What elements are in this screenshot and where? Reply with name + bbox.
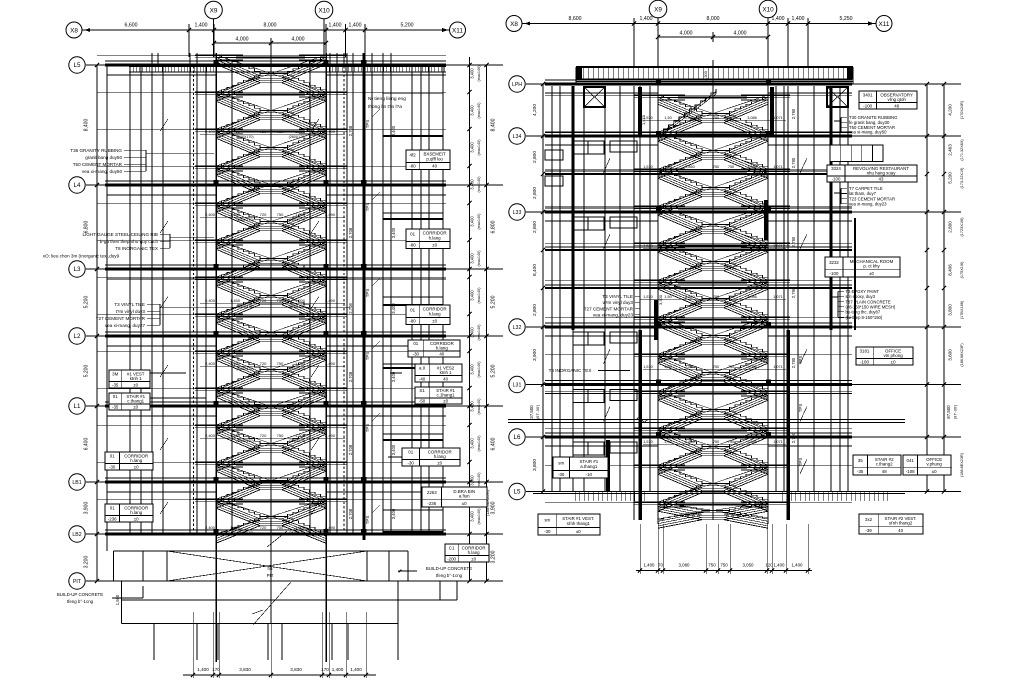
inside side landings [216,424,243,426]
inside side landings [216,128,243,130]
centre landing slab [236,242,305,244]
centre landing slab [236,94,305,96]
heavy wall step below L33 [854,218,856,330]
svg-text:5,200: 5,200 [948,172,953,184]
svg-text:TPS: TPS [365,203,370,212]
svg-text:X9: X9 [654,6,662,13]
stair landing stubs [195,276,216,278]
svg-text:1,400: 1,400 [197,667,209,672]
svg-text:±0: ±0 [576,529,581,534]
svg-text:-100: -100 [860,360,869,365]
svg-text:vea xi-mang, duy50: vea xi-mang, duy50 [82,169,123,174]
svg-text:(max140): (max140) [477,139,481,156]
svg-text:720: 720 [260,212,267,217]
svg-text:4,200: 4,200 [948,104,953,116]
svg-text:1,450: 1,450 [230,361,241,366]
centre landing slab [236,464,305,466]
stair flight down [216,388,260,407]
svg-text:2,708: 2,708 [348,227,353,238]
pit leaders [253,582,291,625]
level bubble L4 [69,177,85,193]
pit right wall [388,551,390,581]
stair flight down [216,55,260,74]
stair landing stubs [634,501,658,503]
level bubble LB2 [69,526,85,542]
stair landing stubs [634,316,658,318]
svg-text:L2: L2 [74,333,81,340]
ground tick band at L5 right [574,492,576,502]
svg-text:4,000: 4,000 [236,37,249,43]
level line L33 (right section) [526,211,961,213]
inside side landings [216,498,243,500]
stair landing stubs [195,54,216,56]
svg-text:granit bang duy50: granit bang duy50 [85,155,122,160]
svg-text:1,400: 1,400 [792,16,805,22]
svg-text:T27 CEMENT MORTAR: T27 CEMENT MORTAR [96,316,146,321]
stair flight up [658,188,702,207]
level line L34 (right section) [526,135,961,137]
svg-text:3232: 3232 [829,260,839,265]
centre landing slab [236,501,305,503]
svg-text:35: 35 [858,458,863,463]
svg-text:(max140): (max140) [477,361,481,378]
svg-text:4,000: 4,000 [734,31,747,37]
stair landing stubs [634,427,658,429]
level line L2 (left section) [86,335,503,337]
svg-text:a.thang1: a.thang1 [580,464,598,469]
svg-text:750: 750 [713,165,719,169]
svg-text:v.phung: v.phung [927,462,943,467]
shelf line right bay [383,304,443,306]
svg-text:1,071: 1,071 [773,165,783,169]
stair landing stubs [634,242,658,244]
stair flight down [216,351,260,370]
svg-text:±0: ±0 [134,465,139,470]
level bubble L1 [69,398,85,414]
svg-text:-80: -80 [409,319,416,324]
level line L6 (right section) [526,436,961,438]
stair flight down [658,428,702,447]
window sill right bay [383,363,443,365]
pit left wall [113,551,115,581]
svg-text:(max140): (max140) [477,102,481,119]
svg-text:750: 750 [277,298,284,303]
inside side landings [216,387,243,389]
svg-text:750: 750 [728,295,734,299]
door swing marks [160,365,168,377]
svg-text:±0: ±0 [437,461,442,466]
dashed shaft line [193,66,195,534]
svg-text:87,500: 87,500 [946,405,951,419]
svg-text:8,000: 8,000 [264,23,277,29]
stair landing stubs [634,390,658,392]
svg-text:2,860: 2,860 [685,165,695,169]
svg-text:TPS: TPS [798,458,803,467]
svg-text:T50 CEMENT MORTAR: T50 CEMENT MORTAR [73,162,123,167]
svg-text:750: 750 [728,165,734,169]
centre landing slab [236,427,305,429]
inside side landings [216,165,243,167]
small window stack left edge right section [545,150,563,160]
svg-text:-200: -200 [447,557,456,562]
svg-text:3,830: 3,830 [290,667,302,672]
ceiling lines per storey (left bays) [107,74,216,76]
svg-text:-35: -35 [112,383,119,388]
core walls to foundation [215,581,217,662]
svg-text:-30: -30 [413,352,420,357]
stair landing stubs [195,424,216,426]
svg-text:(max140): (max140) [477,435,481,452]
svg-text:3,400: 3,400 [470,253,475,264]
svg-text:L5: L5 [74,62,81,69]
svg-text:2,860: 2,860 [685,365,695,369]
svg-text:2,490: 2,490 [325,525,336,530]
svg-text:01: 01 [110,506,115,511]
stair landing stubs [195,128,216,130]
svg-text:750: 750 [728,244,734,248]
level bubble L5 [509,483,525,499]
right bay walls [329,66,331,534]
svg-text:2,800: 2,800 [532,221,538,233]
svg-text:2,800: 2,800 [532,304,538,316]
svg-text:1,400: 1,400 [792,563,804,568]
svg-text:1,570: 1,570 [643,165,653,169]
window boxes left bay [573,141,604,154]
svg-text:h.lang: h.lang [130,510,143,515]
stair flight down [216,129,260,148]
door swing marks [160,119,168,131]
svg-text:LB2: LB2 [72,532,81,538]
svg-text:vŕng qtoh: vŕng qtoh [888,97,907,102]
window boxes left bay [573,442,604,455]
svg-text:1,200: 1,200 [295,212,306,217]
svg-text:sm: sm [544,518,550,523]
stair flight up [658,151,702,170]
svg-text:3,400: 3,400 [391,303,396,314]
svg-text:4,000: 4,000 [680,31,693,37]
inside side landings [658,390,685,392]
stair flight down [658,317,702,336]
window band right bay L34 storey [830,145,883,162]
svg-text:1,570: 1,570 [643,295,653,299]
svg-text:1,200: 1,200 [295,433,306,438]
centre landing slab [678,171,747,173]
svg-text:±0: ±0 [471,557,476,562]
level line LB1 (left section) [86,481,503,483]
stair flight up [216,259,260,278]
inside side landings [658,501,685,503]
svg-text:2,790: 2,790 [791,236,796,247]
svg-text:(max140): (max140) [477,213,481,230]
centre landing slab [678,430,747,432]
level bubble L6 [509,429,525,445]
svg-text:8,000: 8,000 [707,16,720,22]
svg-text:2,400: 2,400 [205,212,216,217]
svg-text:2,708: 2,708 [348,444,353,455]
svg-text:c.1hang1: c.1hang1 [437,393,456,398]
svg-text:X8: X8 [70,27,78,34]
leader lines from boxes [150,372,186,374]
level line PIT (left section) [86,580,503,582]
svg-text:3,830: 3,830 [239,667,251,672]
svg-text:1,400: 1,400 [349,23,362,29]
svg-text:TPS: TPS [798,356,803,365]
stair flight up [216,74,260,93]
right section label boxes [859,91,917,109]
grid bubble X10 right [759,0,777,18]
svg-text:3,200: 3,200 [491,550,497,563]
svg-text:1,50: 1,50 [664,365,671,369]
pit slab [121,581,123,624]
grid bubble X8 [66,22,82,38]
svg-text:5,250: 5,250 [840,16,853,22]
svg-text:01: 01 [413,341,418,346]
svg-text:vtn phong: vtn phong [883,353,903,358]
svg-text:(max140): (max140) [477,398,481,415]
svg-text:750: 750 [277,361,284,366]
svg-text:TPS: TPS [365,352,370,361]
svg-text:h.lang: h.lang [429,311,442,316]
svg-text:1,50: 1,50 [664,440,671,444]
svg-text:(max140): (max140) [477,324,481,341]
stair flight down [216,240,260,259]
svg-text:8,400: 8,400 [491,118,497,131]
svg-text:2,490: 2,490 [325,212,336,217]
svg-text:X8: X8 [510,21,518,28]
extension lines right bottom dims [639,524,641,574]
svg-text:±0: ±0 [432,243,437,248]
level line L32 (right section) [526,326,961,328]
svg-text:8,600: 8,600 [569,16,582,22]
window boxes left bay [573,217,604,230]
inside side landings [658,464,685,466]
svg-text:750: 750 [277,433,284,438]
door swing marks [160,221,168,233]
svg-text:3,400: 3,400 [470,68,475,79]
centre landing slab [678,504,747,506]
svg-text:3,400: 3,400 [391,125,396,136]
top slab tick band below L5 [129,66,446,68]
stair landing stubs [634,94,658,96]
svg-text:-50: -50 [419,399,426,404]
svg-text:(17BX186): (17BX186) [960,300,964,319]
left section label boxes [406,150,450,170]
svg-text:3x2: 3x2 [865,517,873,522]
svg-text:h.lang: h.lang [434,454,447,459]
svg-text:L4: L4 [74,182,81,189]
svg-text:2,790: 2,790 [791,157,796,168]
stair landing stubs [634,168,658,170]
extension lines to bottom dims [192,612,194,678]
svg-text:720: 720 [260,129,267,134]
svg-text:2263: 2263 [427,490,437,495]
stair flight up [658,299,702,318]
stair landing stubs [195,239,216,241]
svg-text:a.0: a.0 [419,366,426,371]
left section bottom dimension line [183,674,376,676]
svg-text:3,086: 3,086 [747,365,757,369]
stair inner wall left [231,60,233,534]
svg-text:1,400: 1,400 [640,16,653,22]
grid bubble X10 [315,1,333,19]
svg-text:-40: -40 [419,377,426,382]
svg-text:BUILD-UP CONCRETE: BUILD-UP CONCRETE [426,566,472,571]
svg-text:2,860: 2,860 [685,440,695,444]
svg-text:2,860: 2,860 [685,116,695,120]
svg-text:5,200: 5,200 [84,296,90,309]
centre landing slab [236,131,305,133]
level line LB2 (left section) [86,533,503,535]
svg-text:2,490: 2,490 [325,361,336,366]
left section body vertical walls [106,66,108,551]
svg-text:3,400: 3,400 [470,438,475,449]
stair landing stubs [195,387,216,389]
svg-text:L33: L33 [513,210,522,216]
svg-text:3,800: 3,800 [948,304,953,316]
level bubble LPH [509,76,525,92]
inside side landings [658,131,685,133]
right section left dim chain [542,84,544,492]
svg-text:X10: X10 [762,6,774,13]
inside side landings [658,94,685,96]
stair flight up [658,225,702,244]
svg-text:sm: sm [558,461,564,466]
svg-text:4,200: 4,200 [532,104,538,116]
right section body vertical walls [551,86,553,492]
svg-text:750: 750 [713,365,719,369]
svg-text:1,50: 1,50 [664,116,671,120]
svg-text:2,400: 2,400 [205,525,216,530]
svg-text:1,570: 1,570 [643,440,653,444]
svg-text:750: 750 [713,295,719,299]
stair landing stubs [195,498,216,500]
stair flight down [658,354,702,373]
centre landing slab [236,316,305,318]
stair landing stubs [634,353,658,355]
svg-text:vea xi-mang, duy50: vea xi-mang, duy50 [849,130,887,135]
svg-text:1,071: 1,071 [773,365,783,369]
svg-text:1,400: 1,400 [774,563,786,568]
svg-text:3,400: 3,400 [470,290,475,301]
stair centre line [270,47,272,624]
svg-text:3,400: 3,400 [470,475,475,486]
svg-text:(260X170): (260X170) [289,367,306,371]
roof steel X-box left [584,87,605,107]
left section floor slabs [105,60,446,62]
svg-text:±0: ±0 [869,271,874,276]
svg-text:L6: L6 [514,434,521,441]
svg-text:750: 750 [713,116,719,120]
inside side landings [216,350,243,352]
svg-text:(lui thep 8-150*150): (lui thep 8-150*150) [846,315,883,320]
svg-text:1,200: 1,200 [295,129,306,134]
door swing marks [160,438,168,450]
svg-text:750: 750 [720,563,728,568]
inside side landings [658,353,685,355]
svg-text:sťnh thang2: sťnh thang2 [889,521,913,526]
left section body edge / dim chain [96,65,98,581]
grid bubble X9 right [649,0,667,18]
svg-text:-100: -100 [863,104,872,109]
stair flight up [658,373,702,392]
svg-text:5,200: 5,200 [491,295,497,308]
level line L1 (left section) [86,405,503,407]
svg-text:2,490: 2,490 [325,129,336,134]
stair flight up [658,447,702,466]
svg-text:b-ga then thep nho quy cach: b-ga then thep nho quy cach [100,239,159,244]
stair flight down [658,280,702,299]
svg-text:01: 01 [410,308,415,313]
svg-text:L3: L3 [74,266,81,273]
mid slabs right section upper storeys [541,172,545,176]
stair flight up [658,114,702,133]
svg-text:±0: ±0 [432,319,437,324]
centre landing slab [678,393,747,395]
svg-text:3,900: 3,900 [84,502,90,515]
stair landing stubs [195,350,216,352]
svg-text:3,086: 3,086 [747,165,757,169]
svg-text:±0: ±0 [932,469,937,474]
stair flight up [216,222,260,241]
svg-text:3,086: 3,086 [747,295,757,299]
svg-text:40: 40 [443,377,448,382]
svg-text:(17Z3X1f6): (17Z3X1f6) [960,217,964,237]
svg-text:(260X170): (260X170) [289,218,306,222]
svg-text:(97'-30'): (97'-30') [535,404,540,419]
stair flight up [216,517,260,535]
svg-text:PIT: PIT [73,579,82,585]
svg-text:4,000: 4,000 [292,37,305,43]
svg-text:TPS: TPS [365,424,370,433]
inside side landings [216,461,243,463]
left section sub-floor dim ticks and labels [467,90,471,94]
stair core walls right section [633,86,635,520]
svg-text:2,708: 2,708 [348,508,353,519]
svg-text:750: 750 [277,212,284,217]
stair landing stubs [634,205,658,207]
svg-text:3,086: 3,086 [747,440,757,444]
inside side landings [216,313,243,315]
shelf line right bay [383,135,443,137]
svg-text:40: 40 [898,528,903,533]
heavy core segments [638,87,642,137]
svg-text:h.lang: h.lang [436,346,449,351]
svg-text:(171.32X6X): (171.32X6X) [960,139,964,161]
svg-text:2,790: 2,790 [791,287,796,298]
svg-text:h.lang: h.lang [468,550,481,555]
svg-text:vea xi-mang, duy23: vea xi-mang, duy23 [593,313,634,318]
inside side landings [216,54,243,56]
svg-text:1,200: 1,200 [295,298,306,303]
grid bubble X9 [205,1,223,19]
svg-text:3,400: 3,400 [470,401,475,412]
svg-text:01: 01 [110,454,115,459]
svg-text:(max140): (max140) [477,472,481,489]
svg-text:1,570: 1,570 [643,365,653,369]
svg-text:T36 GRANITY RUBBING: T36 GRANITY RUBBING [70,148,122,153]
svg-text:T8 INORGANIC TEX: T8 INORGANIC TEX [549,368,592,373]
svg-text:-30: -30 [558,472,565,477]
centre landing slab [678,319,747,321]
level bubble L3 [69,261,85,277]
level line L5 (left section) [86,64,503,66]
stair landing stubs [195,165,216,167]
svg-text:X9: X9 [210,7,218,14]
stair landing stubs [195,202,216,204]
svg-text:LIGHT GAUGE STEEL CEILING RIB: LIGHT GAUGE STEEL CEILING RIB [82,232,158,237]
svg-text:2,790: 2,790 [791,432,796,443]
svg-text:5,200: 5,200 [401,23,414,29]
